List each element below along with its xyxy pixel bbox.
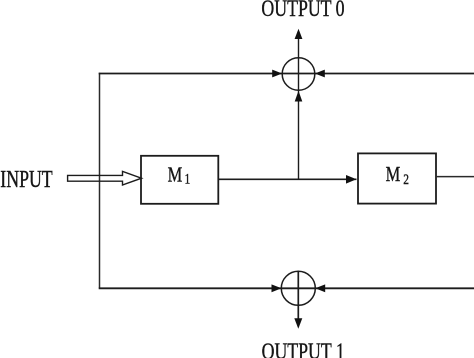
- wire: M2 output to right edge: [436, 176, 474, 178]
- arrowhead: into adder U2 right: [315, 284, 325, 292]
- arrowhead: output 0 up arrow: [295, 29, 303, 39]
- arrowhead: into adder U1 left: [272, 70, 282, 78]
- input block arrow into M1: [68, 171, 142, 185]
- arrowhead: into register M2: [346, 175, 357, 184]
- arrowhead: into adder U1 bottom: [295, 91, 303, 102]
- register M1 box: [141, 156, 218, 204]
- svg-text:M1: M1: [168, 163, 191, 187]
- svg-text:OUTPUT 0: OUTPUT 0: [261, 0, 344, 22]
- svg-text:INPUT: INPUT: [0, 166, 52, 193]
- svg-text:M2: M2: [386, 163, 409, 187]
- adder U2 (XOR circle, output 1): [281, 271, 315, 305]
- wire: left branch vertical rail: [99, 73, 101, 289]
- arrowhead: into adder U1 right: [315, 70, 325, 78]
- adder U1 (XOR circle, output 0): [282, 58, 315, 91]
- wire: riser from node A up through adder U1 to OUTPUT 0: [298, 31, 300, 179]
- wire: bottom rail to adder U2: [99, 287, 474, 289]
- wire: adder U2 vertical through circle down to OUTPUT 1: [297, 271, 299, 327]
- register M2 box: [358, 153, 436, 203]
- wire: top rail to adder U1: [99, 73, 474, 75]
- wire: M1 output to M2 with node A junction: [218, 178, 356, 180]
- arrowhead: into adder U2 left: [272, 284, 282, 292]
- svg-text:OUTPUT 1: OUTPUT 1: [262, 340, 345, 358]
- arrowhead: output 1 down arrow: [294, 318, 302, 328]
